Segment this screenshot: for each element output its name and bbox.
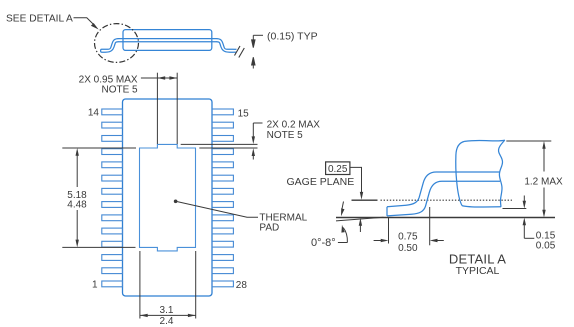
side view right lead bend, bottom surface <box>217 42 234 53</box>
SEE DETAIL A arrowhead <box>91 23 99 30</box>
dim 0.15/0.05: extension line (package bottom) <box>503 208 527 210</box>
detail A lead foot tip <box>386 207 388 216</box>
pins right (15..28) <box>212 109 233 287</box>
(0.15) TYP dimension arrows <box>252 35 263 68</box>
tilted foot bottom extension line <box>336 217 384 221</box>
dim 2X 0.95 MAX: extension lines <box>157 73 177 144</box>
svg-text:3.1: 3.1 <box>160 305 174 316</box>
side view package body <box>123 30 212 51</box>
seating plane line <box>336 217 555 219</box>
top view package body <box>123 99 213 296</box>
svg-text:14: 14 <box>88 108 100 119</box>
dim 2X 0.2 MAX: arrows + leader <box>252 123 263 160</box>
side view left lead foot tip <box>100 49 103 52</box>
svg-text:2.4: 2.4 <box>160 316 174 327</box>
side view right lead foot cut end (under break marks) <box>234 48 237 50</box>
(0.15) TYP break marks on right foot <box>235 46 245 58</box>
svg-text:NOTE 5: NOTE 5 <box>267 130 304 141</box>
dim 2X 0.2 MAX: extension lines <box>181 144 258 148</box>
side view left lead bend, bottom surface <box>102 42 119 53</box>
dim 1.2 MAX: dimension line + arrows <box>542 141 545 218</box>
gage plane dotted line <box>381 199 513 201</box>
svg-text:1.2 MAX: 1.2 MAX <box>524 176 563 187</box>
detail A package body section with break lines <box>456 140 505 207</box>
dim 2X 0.95 MAX: dimension line + arrows <box>141 76 177 79</box>
svg-text:PAD: PAD <box>259 223 279 234</box>
SEE DETAIL A leader wire <box>74 18 95 26</box>
dim 0.25: leader + arrow <box>350 167 362 192</box>
pins left (14..1) <box>102 109 123 287</box>
detail A lead profile inner (bottom) edge <box>387 181 500 216</box>
gage plane solid segment <box>352 199 378 201</box>
svg-text:NOTE 5: NOTE 5 <box>101 85 138 96</box>
svg-text:GAGE PLANE: GAGE PLANE <box>287 176 355 188</box>
dim 0-8 degrees: leader + arc + arrows <box>338 202 361 243</box>
side view lead strip bottom edge <box>118 41 217 43</box>
thermal pad callout dot + leader <box>174 200 178 204</box>
svg-text:A: A <box>66 14 73 25</box>
dim 3.1/2.4: dimension line + arrows <box>140 314 196 317</box>
dim 0.75/0.50: extension lines <box>389 207 430 245</box>
dim 0.25 gage plane: box <box>326 162 350 175</box>
dim 5.18/4.48: dimension line + arrows <box>76 148 79 247</box>
detail circle (dash-dot) <box>95 24 139 63</box>
side view right lead bend, top surface <box>217 39 234 50</box>
svg-text:(0.15) TYP: (0.15) TYP <box>267 30 318 42</box>
svg-text:28: 28 <box>236 280 248 291</box>
detail A lead profile outer (top) edge <box>387 172 500 207</box>
svg-text:TYPICAL: TYPICAL <box>456 265 500 277</box>
thermal pad outline <box>140 144 196 251</box>
svg-text:SEE DETAIL: SEE DETAIL <box>6 14 64 25</box>
svg-text:15: 15 <box>238 109 250 120</box>
dim 0.15/0.05: arrows + leader <box>523 196 535 239</box>
svg-text:0.05: 0.05 <box>536 240 556 251</box>
side view lead strip top edge <box>118 38 218 40</box>
svg-text:1: 1 <box>92 280 98 291</box>
svg-text:4.48: 4.48 <box>67 200 87 211</box>
svg-text:0°-8°: 0°-8° <box>311 237 336 249</box>
dim 0.75/0.50: arrows <box>374 239 444 242</box>
side view left lead bend, top surface <box>102 39 119 50</box>
svg-text:0.75: 0.75 <box>398 232 418 243</box>
dim 5.18/4.48: extension lines <box>62 148 136 247</box>
dim 1.2 MAX: extension line <box>506 140 551 142</box>
svg-text:0.25: 0.25 <box>328 164 348 175</box>
dim 3.1/2.4: extension lines <box>140 251 196 319</box>
svg-text:0.50: 0.50 <box>398 243 418 254</box>
